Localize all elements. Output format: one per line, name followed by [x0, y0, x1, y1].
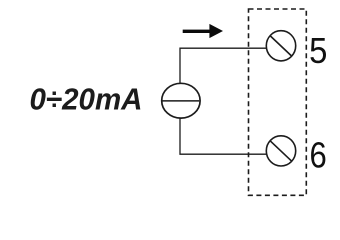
wire from source bottom to terminal 6	[180, 118, 267, 154]
dashed device boundary	[249, 9, 307, 195]
terminal 6	[266, 136, 295, 166]
svg-text:5: 5	[309, 31, 327, 71]
pin number 6	[310, 135, 327, 176]
current source I1	[162, 83, 200, 118]
current direction arrow	[183, 24, 223, 38]
terminal 5	[266, 31, 295, 61]
wire from source top to terminal 5	[180, 48, 266, 84]
svg-text:6: 6	[310, 135, 327, 176]
svg-text:0÷20mA: 0÷20mA	[30, 82, 143, 117]
pin number 5	[309, 31, 327, 71]
